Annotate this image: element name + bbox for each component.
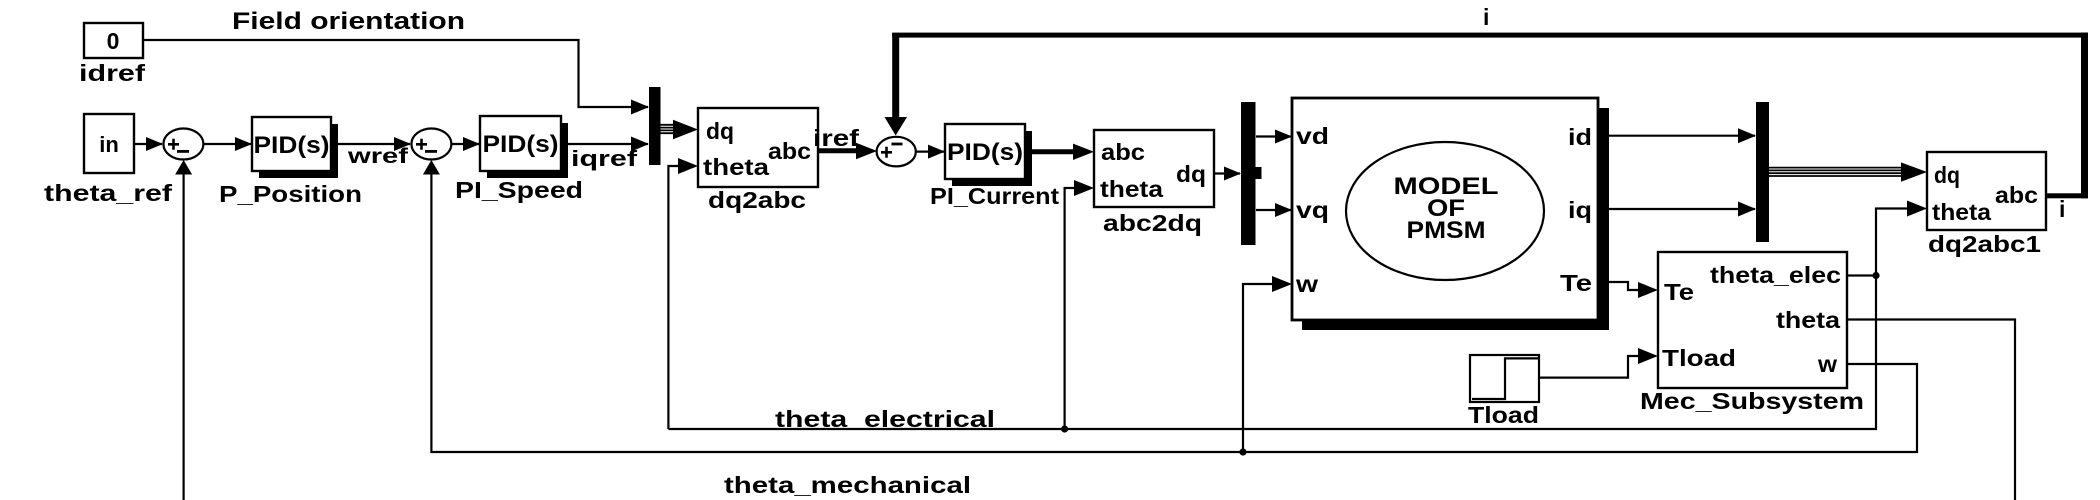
wire sum S1 to P_Position	[203, 143, 251, 145]
feedback arrowhead up into sum S2	[423, 160, 440, 175]
svg-text:PI_Current: PI_Current	[930, 183, 1059, 209]
svg-text:PMSM: PMSM	[1407, 217, 1486, 244]
svg-text:dq2abc1: dq2abc1	[1928, 231, 2041, 257]
arrowhead into sum S3	[856, 143, 877, 159]
junction theta_elec	[1872, 272, 1879, 279]
svg-text:theta: theta	[1932, 199, 1991, 225]
svg-text:w: w	[1817, 351, 1837, 377]
svg-text:dq: dq	[1176, 161, 1206, 187]
PID block PI_Speed	[480, 116, 568, 178]
svg-text:theta_elec: theta_elec	[1710, 262, 1841, 288]
wire in to sum S1	[134, 143, 162, 145]
svg-text:P_Position: P_Position	[219, 181, 362, 207]
svg-text:iq: iq	[1568, 197, 1592, 223]
svg-text:vq: vq	[1296, 197, 1329, 223]
PID block PI_Current	[945, 124, 1032, 186]
svg-text:Tload: Tload	[1662, 345, 1736, 371]
thick wire i output of dq2abc1	[2046, 193, 2088, 198]
svg-text:Field orientation: Field orientation	[232, 8, 465, 35]
wire theta_electrical into dq2abc theta	[668, 166, 680, 429]
wire theta out of Mec_Subsystem down right side	[1847, 320, 2015, 500]
arrowhead vd into PMSM	[1275, 130, 1292, 144]
wire sum S3 to PI_Current	[916, 151, 944, 153]
svg-text:iref: iref	[813, 125, 859, 151]
arrowhead id into mux M3	[1738, 128, 1756, 143]
wire theta_electrical feedback down and left	[668, 276, 1876, 430]
svg-text:idref: idref	[79, 60, 145, 86]
constant block idref	[84, 23, 143, 58]
svg-text:abc: abc	[1101, 139, 1145, 165]
arrowhead theta into dq2abc	[678, 158, 698, 174]
wire id PMSM to mux M3	[1609, 135, 1755, 137]
demux M2 nub	[1256, 167, 1262, 179]
sum S1	[163, 129, 203, 160]
svg-text:theta_electrical: theta_electrical	[775, 406, 995, 432]
step source block Tload	[1470, 355, 1539, 402]
wire iqref PI_Speed to mux M1	[568, 143, 648, 145]
svg-text:Mec_Subsystem: Mec_Subsystem	[1640, 388, 1864, 414]
svg-text:abc2dq: abc2dq	[1103, 210, 1202, 236]
thick wire i right vertical	[2081, 33, 2088, 199]
svg-text:PID(s): PID(s)	[947, 139, 1023, 166]
arrowhead vq into PMSM	[1275, 203, 1292, 217]
wire idref to mux M1	[143, 40, 648, 107]
svg-text:id: id	[1568, 124, 1592, 150]
arrowhead into sum S2	[394, 137, 411, 151]
svg-text:abc: abc	[768, 138, 811, 164]
svg-text:0: 0	[107, 28, 120, 54]
svg-text:iqref: iqref	[571, 146, 638, 171]
vector wire mux M3 to dq2abc1	[1769, 162, 1927, 181]
svg-text:theta_mechanical: theta_mechanical	[724, 472, 971, 498]
subsystem block dq2abc1	[1927, 152, 2046, 230]
svg-text:dq: dq	[1934, 162, 1960, 188]
wire sum S2 to PI_Speed	[451, 143, 479, 145]
svg-text:theta_ref: theta_ref	[44, 180, 172, 206]
sum S2	[411, 129, 451, 160]
wire Te PMSM to Mec_Subsystem	[1609, 282, 1640, 290]
demux M2	[1241, 102, 1256, 245]
arrowhead into abc2dq	[1073, 144, 1094, 160]
arrowhead Te into Mec_Subsystem	[1638, 282, 1658, 298]
wire w branch up into PMSM w	[1243, 284, 1274, 452]
arrowhead into PI_Speed	[463, 137, 480, 151]
PID block P_Position	[252, 117, 338, 178]
arrowhead iq into mux M3	[1738, 202, 1756, 217]
wire wref P_Position to sum S2	[338, 143, 410, 145]
inport block theta_ref	[84, 114, 134, 173]
wire w out of Mec_Subsystem feedback	[431, 170, 1917, 452]
svg-text:theta: theta	[1100, 176, 1163, 202]
svg-text:vd: vd	[1296, 123, 1329, 149]
wire abc2dq dq out to demux M2	[1214, 172, 1240, 174]
svg-text:w: w	[1295, 271, 1318, 297]
svg-text:i: i	[2059, 196, 2065, 222]
svg-text:wref: wref	[347, 145, 410, 168]
svg-text:PID(s): PID(s)	[483, 131, 559, 158]
wire demux M2 vq to PMSM	[1256, 209, 1291, 211]
wire theta_elec up into dq2abc1 theta	[1876, 209, 1909, 275]
svg-text:in: in	[99, 132, 119, 157]
arrowhead into demux M2	[1224, 167, 1241, 181]
svg-text:Te: Te	[1664, 279, 1694, 305]
arrowhead into mux M1 (iqref)	[631, 137, 649, 152]
subsystem block Mec_Subsystem	[1658, 252, 1847, 388]
thick wire PI_Current to abc2dq	[1032, 149, 1076, 154]
svg-text:theta: theta	[703, 154, 769, 180]
mux M3	[1756, 102, 1769, 242]
wire Tload block to Mec_Subsystem Tload	[1539, 356, 1640, 378]
thick wire i top run	[892, 33, 2088, 38]
subsystem block dq2abc	[698, 108, 818, 187]
feedback arrowhead up into sum S1	[175, 160, 192, 175]
junction w feedback at PMSM branch	[1239, 448, 1246, 455]
arrowhead into PI_Current	[928, 145, 945, 159]
wire theta_electrical branch up into abc2dq theta	[1065, 188, 1076, 429]
arrowhead into P_Position	[235, 137, 252, 151]
arrowhead into mux M1 (field orientation)	[631, 100, 649, 115]
PMSM model block	[1292, 98, 1609, 330]
wire theta_mechanical feedback up to sum S1	[183, 170, 185, 500]
svg-text:abc: abc	[1995, 182, 2038, 208]
svg-text:theta: theta	[1776, 307, 1840, 333]
svg-text:PID(s): PID(s)	[254, 132, 330, 159]
svg-text:i: i	[1483, 4, 1489, 30]
arrowhead theta into abc2dq	[1074, 180, 1094, 196]
wire iq PMSM to mux M3	[1609, 208, 1755, 210]
wire demux M2 vd to PMSM	[1256, 135, 1291, 137]
arrowhead into sum S1	[146, 137, 163, 151]
arrowhead w into PMSM	[1272, 276, 1292, 292]
junction theta_electrical at abc2dq branch	[1061, 425, 1068, 432]
wire theta_elec out of Mec_Subsystem	[1847, 274, 1876, 276]
svg-text:dq: dq	[706, 118, 734, 144]
thick wire iref dq2abc to sum S3	[818, 148, 860, 153]
vector wire mux M1 to dq2abc	[660, 120, 698, 139]
subsystem block abc2dq	[1094, 130, 1214, 207]
sum S3	[877, 137, 916, 167]
svg-text:PI_Speed: PI_Speed	[455, 177, 583, 203]
svg-text:Tload: Tload	[1468, 402, 1539, 428]
arrowhead Tload into Mec_Subsystem	[1638, 348, 1658, 364]
arrowhead theta into dq2abc1	[1907, 201, 1927, 217]
mux M1	[649, 87, 661, 165]
svg-text:dq2abc: dq2abc	[708, 187, 806, 213]
svg-text:Te: Te	[1560, 270, 1592, 296]
thick current feedback arrow i into sum S3	[885, 33, 908, 136]
